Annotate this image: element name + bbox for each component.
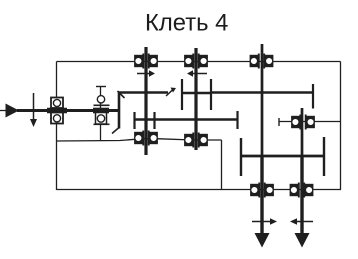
- side arrow on output A: [252, 221, 271, 223]
- shaft S4 output arrowhead: [295, 233, 310, 248]
- bearing B6 support line: [279, 121, 341, 123]
- gear G6 on shaft S3 bar: [211, 91, 313, 94]
- housing right wall: [340, 62, 342, 190]
- bearing B7: [135, 131, 157, 146]
- housing bottom wall: [57, 189, 342, 191]
- gear G3 on shaft S1 lower bar: [135, 118, 155, 121]
- shaft S4 output B: [301, 108, 304, 156]
- gear G7 left cap: [240, 138, 242, 176]
- housing middle shelf: [57, 139, 222, 141]
- gear G3 left cap: [133, 112, 135, 129]
- bearing B2: [93, 96, 110, 125]
- gear G1 bevel on input shaft: [118, 93, 121, 129]
- gear G8 right cap: [323, 137, 325, 176]
- bearing B3: [135, 54, 157, 69]
- bearing B2 stub cap: [96, 86, 106, 88]
- gear G7 on shaft S3 bottom bar: [241, 155, 324, 158]
- input lead line: [0, 110, 7, 112]
- bearing B9: [251, 183, 273, 198]
- input arrowhead: [6, 104, 20, 118]
- gear G5 mesh cap: [210, 79, 212, 110]
- housing top wall: [57, 61, 341, 63]
- gear G2 end tick arrow: [166, 89, 174, 96]
- shaft S3 output arrowhead: [255, 233, 270, 248]
- housing left wall: [56, 62, 58, 191]
- gear G4 on shaft S2 lower bar: [155, 118, 238, 121]
- gear G6 right cap: [312, 84, 314, 109]
- side arrow on output B: [296, 221, 313, 223]
- shaft S2: [194, 48, 197, 150]
- shaft S3 output A: [261, 44, 264, 156]
- bearing B4: [185, 54, 207, 69]
- gear G3 mesh cap: [153, 112, 155, 129]
- shaft S1: [144, 47, 147, 155]
- bearing B6 support cap: [278, 118, 280, 126]
- bearing B8: [185, 133, 207, 148]
- bearing B1: [47, 98, 67, 124]
- bearing B10: [290, 183, 312, 198]
- bearing B6: [292, 115, 314, 130]
- gear G1 corner tick: [118, 91, 125, 98]
- bearing B5: [250, 54, 272, 69]
- housing internal wall: [221, 140, 223, 190]
- shift arrow under bearing B3: [137, 73, 150, 75]
- down arrow on input shaft: [33, 93, 35, 120]
- gear G4 right cap: [236, 111, 238, 129]
- gear G5 left cap: [181, 79, 183, 110]
- input shaft S0: [17, 109, 119, 112]
- gear G1 bottom tick: [112, 128, 119, 134]
- shift arrow under bearing B4: [192, 73, 207, 75]
- gear G5 on shaft S2 upper bar: [182, 92, 211, 95]
- gear G2 on shaft S1 upper bar: [118, 91, 168, 94]
- svg-text:Клеть 4: Клеть 4: [145, 10, 228, 37]
- bearing B2 support stub: [100, 86, 102, 141]
